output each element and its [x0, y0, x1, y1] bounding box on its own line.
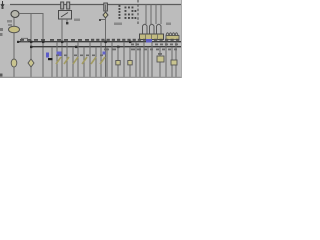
left edge track label 2	[0, 33, 3, 36]
wire vertical x161	[160, 5, 162, 25]
wire S3 down	[105, 5, 107, 78]
blue label left	[46, 53, 49, 58]
connector diamond x31	[28, 59, 34, 67]
drop wire x124	[123, 42, 125, 77]
connector arrow x93	[91, 57, 96, 64]
fuse S3	[104, 3, 108, 11]
coil winding N2	[150, 24, 155, 34]
label b5	[74, 19, 80, 22]
junction dots on buses	[30, 41, 131, 48]
drop wire x107	[106, 47, 108, 77]
connector oval on left wire	[11, 59, 17, 67]
coil winding N1	[143, 24, 148, 34]
drop wire x140	[139, 47, 141, 77]
connector housing row	[140, 34, 164, 40]
drop wire x172	[171, 47, 173, 77]
connector arrow x58	[56, 57, 61, 64]
wire relay out right stub	[66, 19, 68, 23]
wire jog left	[100, 19, 105, 21]
drop wire x152	[151, 42, 153, 77]
bottom-left track mark	[0, 74, 3, 77]
blue label T4k	[57, 52, 62, 57]
drop wire x78	[77, 42, 79, 77]
label b	[166, 23, 171, 26]
drop wire x144	[143, 42, 145, 77]
arrow marker top-left	[1, 1, 4, 7]
junction dot H1 left end	[17, 41, 19, 43]
left edge track label	[0, 28, 3, 31]
schematic canvas background	[0, 0, 182, 78]
connector square x118	[116, 61, 120, 65]
connector arrow x75	[73, 57, 78, 64]
component box right	[157, 56, 164, 62]
drop wire x73	[72, 47, 74, 77]
wire vertical x43	[42, 14, 44, 78]
drop wire x136	[135, 42, 137, 77]
label above box	[158, 53, 162, 55]
connector arrow x66	[64, 57, 69, 64]
wire label row above bus	[20, 39, 179, 41]
small coil group N4	[166, 33, 178, 36]
small connector row	[166, 36, 179, 40]
drop wire x130	[129, 47, 131, 77]
component right x174	[171, 60, 177, 65]
motor/pump symbol M1	[11, 11, 19, 18]
fuse S1	[61, 2, 64, 9]
wire vertical x31	[30, 14, 32, 78]
blue speck near x104	[103, 52, 106, 55]
connector arrow x102	[100, 57, 105, 64]
drop wire x96	[95, 47, 97, 77]
wire vertical x146	[145, 5, 147, 25]
connector symbol A (battery oval)	[9, 26, 20, 32]
drop wire x57	[56, 42, 58, 77]
junction dot	[99, 19, 101, 21]
housing divider 1	[145, 34, 147, 40]
top border wire (bus 30)	[10, 4, 181, 6]
drop wire x166	[165, 42, 167, 77]
bus wire 15 (upper)	[18, 41, 181, 43]
bus wire 31 (lower)	[31, 46, 181, 48]
ground bar symbol	[48, 58, 53, 60]
node dot top-left	[2, 7, 4, 9]
dashed boundary line	[137, 0, 139, 25]
connector pin grid T2	[125, 7, 137, 20]
label above A	[8, 24, 12, 26]
connector square x130	[128, 61, 132, 65]
label 30	[7, 20, 12, 23]
lamp symbol E1	[103, 12, 108, 18]
drop wire x67	[66, 42, 68, 77]
relay contact inside	[61, 13, 68, 18]
drop wire x90	[89, 42, 91, 77]
wire from M1 to right	[19, 13, 44, 15]
drop wire x101	[100, 42, 102, 77]
node label blue	[146, 39, 152, 43]
wire vertical x151	[150, 5, 152, 25]
drop wire x52	[51, 47, 53, 77]
drop wire x112	[111, 42, 113, 77]
wire M1 down	[13, 18, 15, 77]
junction label box	[22, 38, 28, 41]
bottom border of schematic	[0, 76, 181, 78]
wire vertical x156	[155, 5, 157, 25]
coil winding N3	[157, 24, 162, 34]
drop wire x62b	[61, 47, 63, 77]
relay J1 box	[59, 11, 72, 20]
tiny label row y55	[56, 55, 103, 57]
housing divider 2	[151, 34, 153, 40]
connector pin column T1	[119, 5, 121, 19]
junction dot	[66, 22, 68, 24]
drop wire x84	[83, 47, 85, 77]
label A97	[114, 23, 122, 26]
fuse S2	[67, 2, 70, 9]
drop wire x118	[117, 47, 119, 77]
drop wire x160	[159, 47, 161, 77]
wire relay out left	[61, 19, 63, 77]
right edge of canvas	[181, 0, 183, 78]
drop wire x148	[147, 47, 149, 77]
drop wire x176	[175, 42, 177, 77]
connector arrow x84	[82, 57, 87, 64]
top margin strip	[0, 0, 182, 4]
housing divider 3	[157, 34, 159, 40]
terminal number row between buses	[104, 44, 178, 51]
